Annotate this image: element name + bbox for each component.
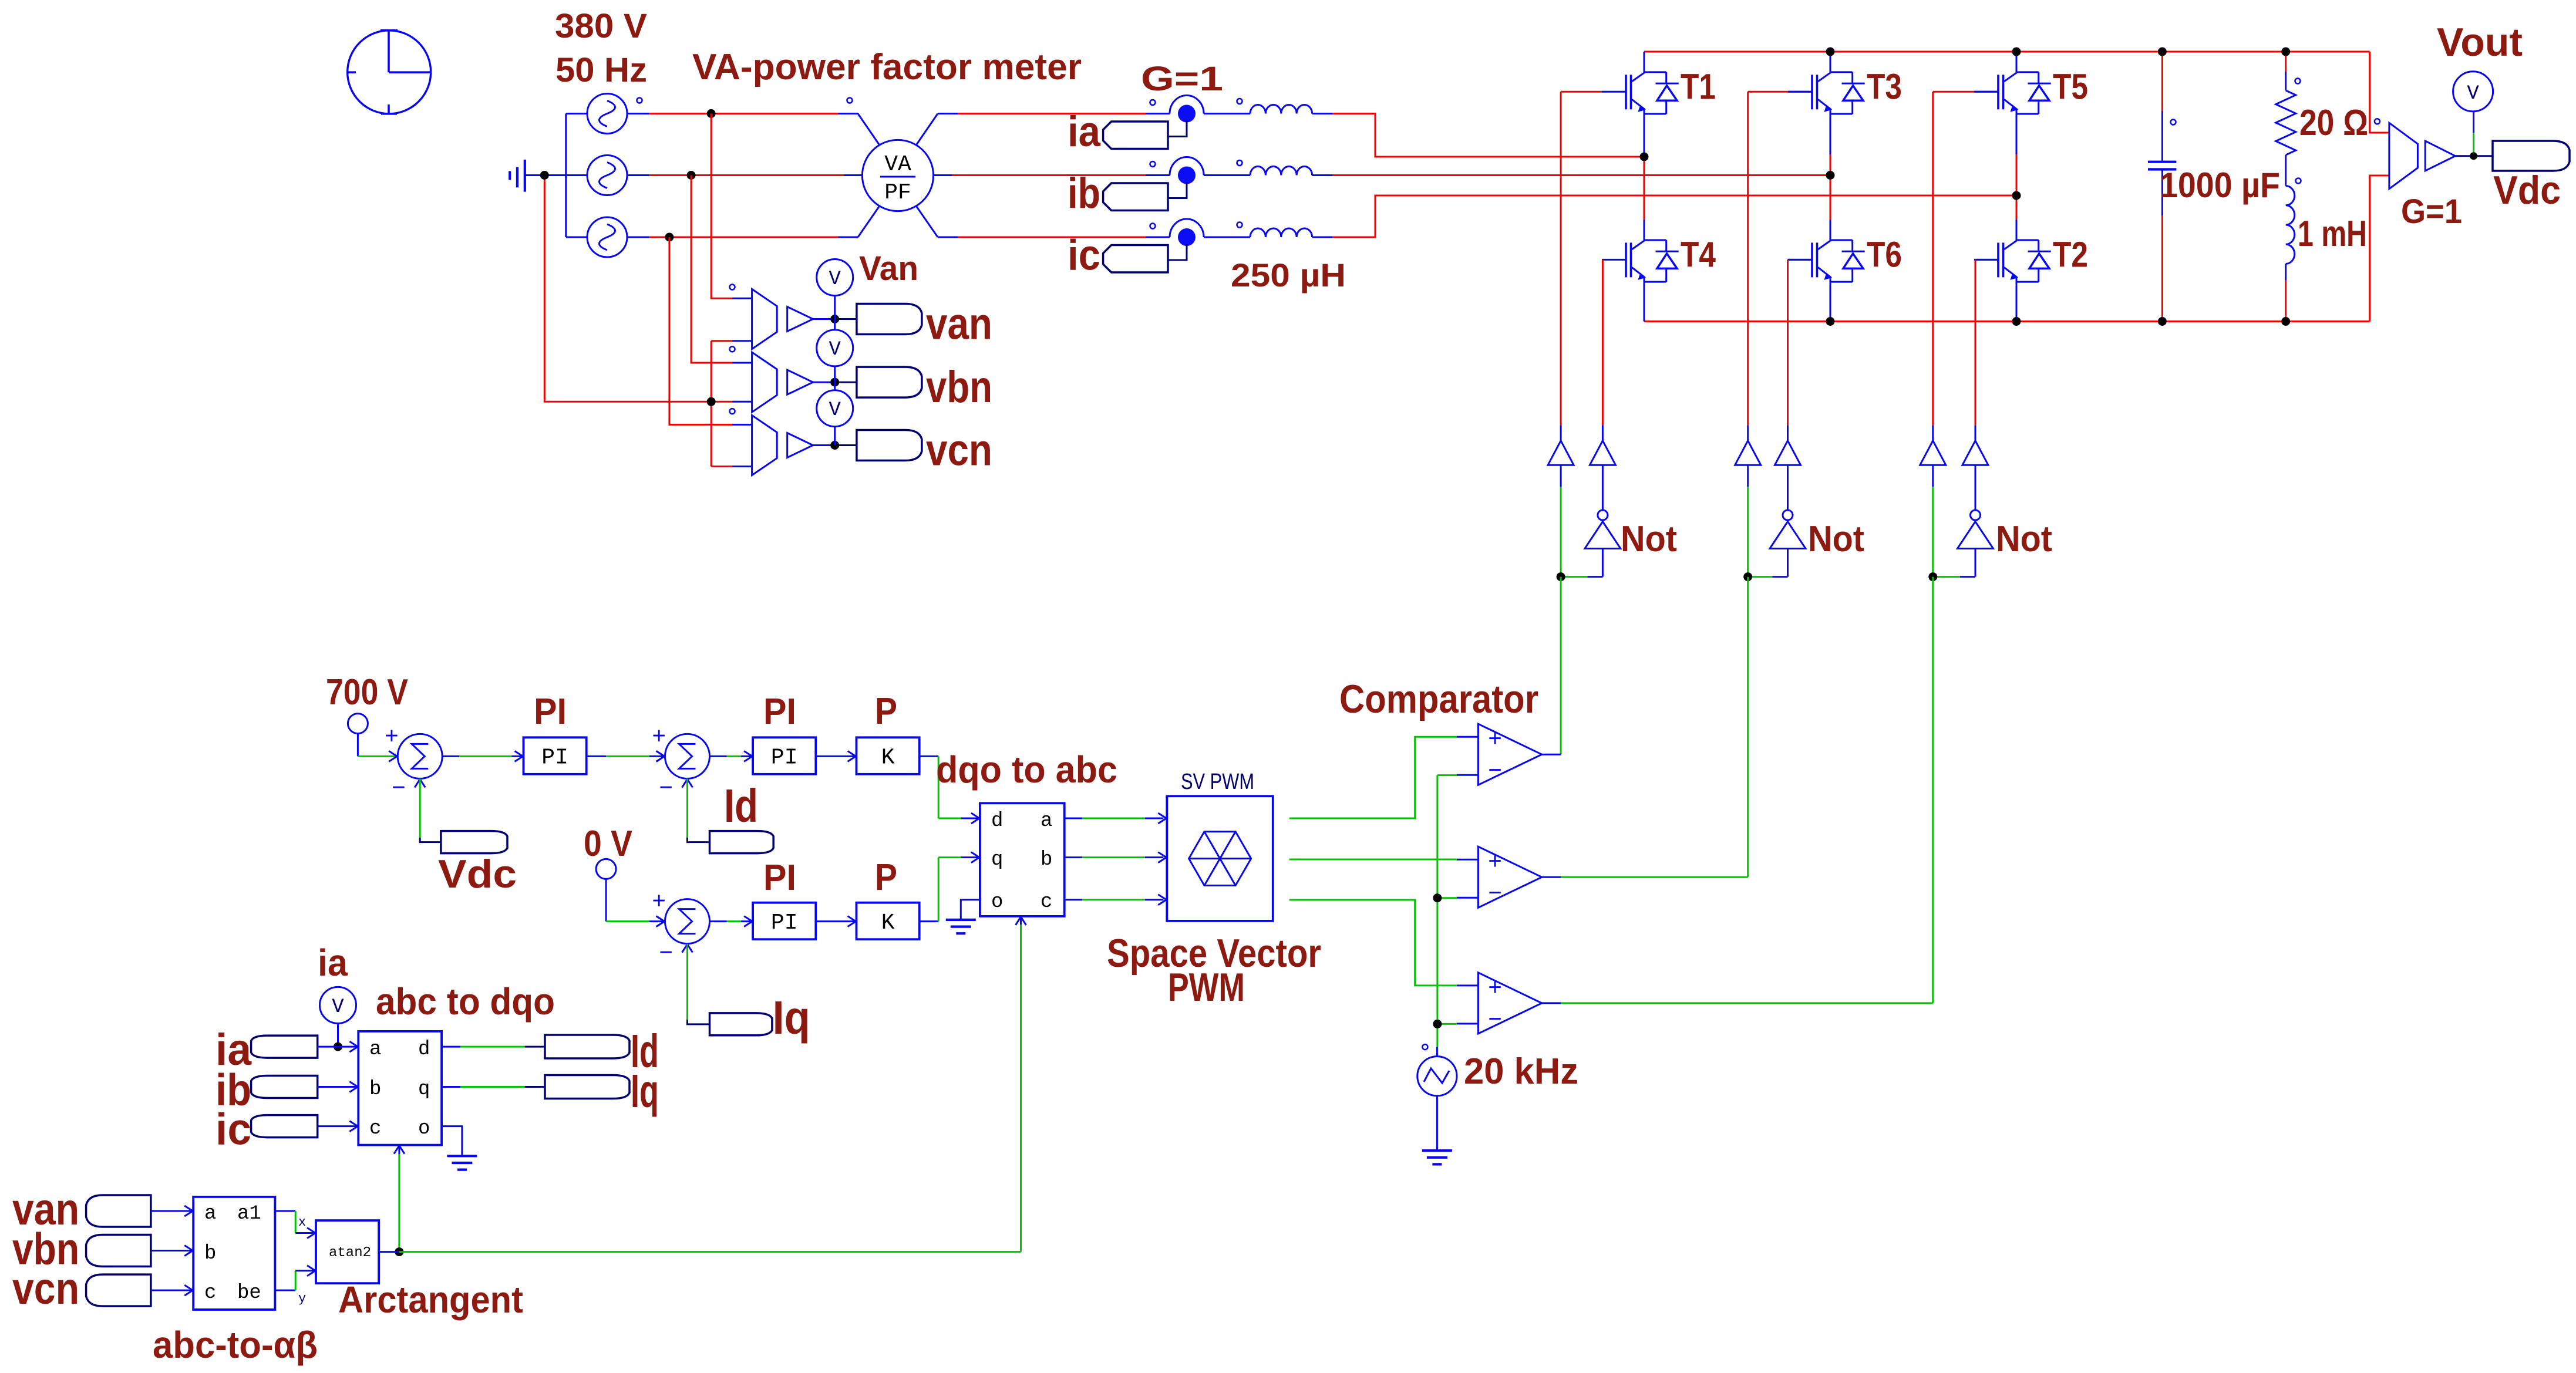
wire phase A into bridge <box>1332 114 1644 157</box>
wire beta out to atan2 y <box>275 1266 316 1290</box>
node cap top <box>2158 48 2167 56</box>
transistor T4 (IGBT with diode) <box>1602 240 1679 282</box>
block Space Vector PWM <box>1167 796 1273 921</box>
svg-text:a: a <box>1040 810 1052 832</box>
wire gate T4 <box>1602 259 1604 425</box>
label plate Vdc <box>2493 141 2570 171</box>
svg-text:be: be <box>237 1282 261 1304</box>
wire T3 emitter to phase B node <box>1830 114 1831 176</box>
svg-text:Vout: Vout <box>2437 20 2523 65</box>
not gate NOT2 <box>1748 510 1806 577</box>
label plate Id out <box>545 1035 629 1058</box>
voltmeter V3 <box>817 382 853 445</box>
svg-text:−: − <box>1488 757 1501 783</box>
dc reference source 0V <box>596 859 665 926</box>
label plate ia <box>1103 122 1168 149</box>
wire phase C node to T2 <box>2016 195 2018 220</box>
svg-text:V: V <box>2467 83 2479 105</box>
voltmeter Van <box>817 259 853 319</box>
block abc-to-dqo transform <box>358 1031 442 1145</box>
marker inductor c <box>1237 222 1242 228</box>
wire phase A node to T4 <box>1644 157 1645 220</box>
svg-text:−: − <box>1488 1006 1501 1032</box>
label plate vbn <box>857 367 922 397</box>
wire comparator3 output up <box>1932 577 1934 1003</box>
label plate Iq feedback <box>710 1013 772 1035</box>
wire DC- to amp input <box>2370 176 2389 322</box>
marker meter <box>847 98 853 103</box>
node res bottom <box>2281 317 2290 326</box>
current sensor ib (G=1) <box>1146 157 1250 198</box>
svg-text:T2: T2 <box>2053 234 2088 274</box>
svg-text:a1: a1 <box>237 1203 261 1225</box>
label plate Iq out <box>545 1075 629 1099</box>
svg-text:d: d <box>991 810 1003 832</box>
svg-text:G=1: G=1 <box>2401 193 2462 231</box>
wire phase A meter to sensor <box>958 113 1146 114</box>
wire S3 to PI3 <box>710 916 753 927</box>
dc reference source 700V <box>348 714 398 757</box>
ac source VS3 (380V 50Hz phase C) <box>566 217 649 257</box>
wire source common bus <box>565 114 567 238</box>
svg-text:c: c <box>1040 891 1052 913</box>
comparator CMP1 <box>1457 724 1561 785</box>
wire phase B meter to sensor <box>952 174 1146 176</box>
marker probe van <box>730 285 735 290</box>
svg-text:T3: T3 <box>1867 66 1902 106</box>
marker sensor ib <box>1150 161 1156 167</box>
svg-text:V: V <box>829 268 841 291</box>
clock element (simulation control) <box>348 31 431 114</box>
svg-text:+: + <box>385 723 398 748</box>
node bottom bus T6 <box>1826 317 1835 326</box>
marker capacitor <box>2171 120 2176 125</box>
inductor Lb 250uH <box>1250 167 1332 176</box>
wire comparator1 output up <box>1560 577 1562 755</box>
wire phase C into bridge <box>1332 195 2016 237</box>
svg-text:+: + <box>1488 726 1501 751</box>
svg-text:250 µH: 250 µH <box>1231 257 1346 294</box>
svg-text:ib: ib <box>1068 170 1100 217</box>
wire q out to Iq plate <box>442 1086 545 1088</box>
marker amp <box>2375 119 2380 124</box>
svg-text:c: c <box>204 1282 216 1304</box>
transistor T1 (IGBT with diode) <box>1602 72 1679 114</box>
wire neutral to probe minus pins <box>711 341 752 467</box>
svg-text:a: a <box>369 1038 381 1061</box>
wire theta into abc-dqo <box>394 1145 405 1252</box>
svg-text:atan2: atan2 <box>329 1245 371 1261</box>
node gate column 2 <box>1743 572 1752 581</box>
svg-text:abc-to-αβ: abc-to-αβ <box>153 1324 318 1366</box>
marker probe vbn <box>730 346 735 352</box>
inductor La 250uH <box>1250 105 1332 114</box>
svg-text:PI: PI <box>771 910 798 936</box>
node phase B midpoint <box>1826 171 1835 180</box>
svg-text:+: + <box>652 723 666 748</box>
svg-text:ic: ic <box>215 1105 251 1155</box>
wire phase C tap to probe3+ <box>669 237 752 424</box>
wire DC+ top bus <box>1644 51 2370 53</box>
label plate ib <box>1103 183 1168 211</box>
svg-text:a: a <box>204 1203 216 1225</box>
comparator CMP2 <box>1457 846 1561 908</box>
wire emitter T2 <box>2016 282 2018 321</box>
node phase C probe tap <box>665 233 674 242</box>
wire DC+ to amp input <box>2370 52 2389 133</box>
wire ib into abc-dqo <box>318 1082 359 1092</box>
svg-text:−: − <box>659 774 673 800</box>
node neutral at probe2- <box>707 397 716 406</box>
marker sensor ic <box>1150 224 1156 229</box>
not gate NOT3 <box>1933 510 1994 577</box>
svg-text:x: x <box>298 1215 306 1230</box>
wire collector T2 <box>2016 220 2018 240</box>
wire gate T1 <box>1561 92 1602 425</box>
svg-text:d: d <box>418 1038 430 1061</box>
svg-text:b: b <box>1040 849 1052 871</box>
marker sensor ia <box>1150 100 1156 105</box>
gating block inverted column 3 <box>1962 425 1988 510</box>
svg-text:vcn: vcn <box>12 1264 79 1314</box>
marker inductor b <box>1237 160 1242 166</box>
wire K2 to dqo-abc q input <box>920 852 980 922</box>
svg-text:Not: Not <box>1808 519 1864 559</box>
node probe vbn output <box>830 378 839 387</box>
wire gate T5 <box>1933 92 1998 425</box>
wire ia into abc-dqo <box>318 1041 359 1052</box>
wire vbn into abc-alphabeta <box>151 1246 193 1256</box>
node cap bottom <box>2158 317 2167 326</box>
svg-text:b: b <box>204 1243 216 1265</box>
wire gate T2 <box>1975 259 1998 425</box>
svg-text:Not: Not <box>1996 519 2052 559</box>
node phase C midpoint <box>2012 191 2021 200</box>
svg-text:o: o <box>991 891 1003 913</box>
capacitor C1 1000uF <box>2148 52 2176 322</box>
meter VA/PF (VA-power factor meter) <box>838 114 958 238</box>
svg-text:y: y <box>298 1291 306 1306</box>
marker source 1 <box>637 98 642 103</box>
svg-text:−: − <box>659 940 673 966</box>
svg-text:Van: Van <box>859 249 918 288</box>
svg-text:−: − <box>392 774 405 800</box>
wire collector T3 <box>1830 52 1831 72</box>
wire PI1 to S2 <box>587 751 665 761</box>
marker inductor a <box>1237 99 1242 104</box>
ground abc-dqo o output <box>442 1126 477 1170</box>
wire triangle carrier net <box>1437 775 1457 1047</box>
wire dqo-abc output <box>1065 852 1167 863</box>
svg-text:0 V: 0 V <box>584 824 632 864</box>
transistor T2 (IGBT with diode) <box>1974 240 2051 282</box>
wire neutral dot to source bus <box>544 174 566 176</box>
svg-text:G=1: G=1 <box>1141 60 1223 98</box>
gating block direct column 2 <box>1735 425 1761 576</box>
wire T1 emitter to phase A node <box>1644 114 1645 157</box>
svg-text:PI: PI <box>763 691 796 732</box>
svg-text:abc to dqo: abc to dqo <box>376 980 555 1023</box>
summing junction S2 <box>656 734 710 787</box>
svg-text:1000 µF: 1000 µF <box>2160 166 2280 205</box>
svg-text:Vdc: Vdc <box>438 852 517 896</box>
svg-text:dqo to abc: dqo to abc <box>936 748 1117 791</box>
inductor Lc 250uH <box>1250 228 1332 237</box>
block abc-to-alphabeta transform <box>193 1197 275 1310</box>
wire S3 minus from Iq plate <box>688 944 710 1024</box>
svg-text:P: P <box>875 856 897 898</box>
wire emitter T6 <box>1830 282 1831 321</box>
node top bus T5 <box>2012 48 2021 56</box>
wire d out to Id plate <box>442 1046 545 1048</box>
transistor T3 (IGBT with diode) <box>1788 72 1865 114</box>
svg-text:700 V: 700 V <box>326 672 408 713</box>
summing junction S3 <box>656 899 710 953</box>
svg-text:Arctangent: Arctangent <box>338 1278 523 1321</box>
wire collector T4 <box>1644 220 1645 240</box>
svg-text:20 Ω: 20 Ω <box>2299 103 2368 143</box>
node neutral junction <box>540 171 549 180</box>
svg-text:+: + <box>652 888 666 914</box>
wire alpha out to atan2 x <box>275 1211 316 1239</box>
svg-text:PI: PI <box>763 858 796 898</box>
transistor T5 (IGBT with diode) <box>1974 72 2051 114</box>
ac source VS2 (380V 50Hz phase B) <box>566 156 649 195</box>
voltmeter V2 <box>817 319 853 383</box>
ground carrier source <box>1422 1149 1452 1152</box>
wire dqo-abc output <box>1065 813 1167 824</box>
block arctangent atan2 <box>298 1215 399 1306</box>
svg-text:PI: PI <box>541 745 568 771</box>
wire S1 minus from Vdc plate <box>420 778 441 842</box>
block K2 (proportional gain q) <box>857 903 920 940</box>
wire T5 emitter to phase C node <box>2016 114 2018 195</box>
wire emitter T4 <box>1644 282 1645 321</box>
marker carrier source <box>1422 1044 1427 1050</box>
svg-text:V: V <box>332 996 344 1018</box>
node ia probe tap <box>334 1043 342 1051</box>
label plate van <box>857 304 922 335</box>
svg-text:Vdc: Vdc <box>2493 168 2561 212</box>
summing junction S1 <box>389 734 442 787</box>
svg-text:−: − <box>1488 880 1501 906</box>
label plate van input <box>86 1195 151 1227</box>
wire comparator2 output up <box>1747 577 1749 878</box>
block PI3 (q-axis regulator) <box>753 903 816 940</box>
wire collector T5 <box>2016 52 2018 72</box>
label plate Vdc feedback <box>441 831 507 854</box>
svg-text:T5: T5 <box>2053 66 2088 106</box>
wire ic into abc-dqo <box>318 1121 359 1132</box>
svg-text:SV PWM: SV PWM <box>1181 770 1254 794</box>
svg-text:b: b <box>369 1078 381 1101</box>
node top bus T3 <box>1826 48 1835 56</box>
svg-text:V: V <box>829 339 841 361</box>
wire phase B node to T6 <box>1830 176 1831 220</box>
block dqo-to-abc transform <box>980 803 1065 916</box>
svg-text:380 V: 380 V <box>555 7 647 45</box>
wire S2 minus from Id plate <box>688 778 710 842</box>
inductor L4 1mH <box>2286 186 2295 322</box>
voltage probe vcn <box>752 416 857 475</box>
label plate ic input <box>251 1115 318 1138</box>
label plate vbn input <box>86 1235 151 1267</box>
wire vcn into abc-alphabeta <box>151 1285 193 1296</box>
wire PI3 to K2 <box>816 916 856 927</box>
svg-text:Id: Id <box>724 780 758 832</box>
comparator CMP3 <box>1457 973 1561 1034</box>
wire gate T6 <box>1788 259 1813 425</box>
svg-text:T6: T6 <box>1867 234 1902 274</box>
svg-text:q: q <box>418 1078 430 1101</box>
svg-text:+: + <box>1488 848 1501 874</box>
ac source 20kHz triangle carrier <box>1417 1047 1457 1151</box>
svg-text:c: c <box>369 1118 381 1140</box>
gating block inverted column 2 <box>1775 425 1801 510</box>
svg-text:+: + <box>1488 974 1501 1000</box>
voltage sensor G=1 (Vdc) <box>2389 123 2493 188</box>
gating block direct column 3 <box>1920 425 1946 576</box>
svg-text:50 Hz: 50 Hz <box>555 51 647 89</box>
wire collector T6 <box>1830 220 1831 240</box>
svg-text:q: q <box>991 849 1003 871</box>
wire S1 to PI1 <box>442 751 523 761</box>
svg-text:T4: T4 <box>1681 234 1716 274</box>
block K1 (proportional gain d) <box>857 737 920 774</box>
gating block inverted column 1 <box>1590 425 1615 510</box>
label plate ia input <box>251 1035 318 1058</box>
ground (source neutral) <box>510 160 544 192</box>
wire svpwm c to cmp3+ <box>1289 900 1457 986</box>
svg-text:ia: ia <box>318 942 348 984</box>
ac source VS1 (380V 50Hz phase A) <box>566 94 649 134</box>
svg-text:VA: VA <box>884 152 911 177</box>
ground dqo-abc o input <box>946 900 980 933</box>
svg-text:K: K <box>881 910 895 936</box>
label plate ib input <box>251 1076 318 1098</box>
wire theta into dqo-abc <box>1016 916 1026 1252</box>
wire phase B tap to probe2+ <box>691 176 752 363</box>
svg-text:T1: T1 <box>1681 66 1716 106</box>
svg-text:ia: ia <box>1068 108 1101 156</box>
node carrier to cmp2- <box>1433 893 1442 902</box>
not gate NOT1 <box>1561 510 1621 577</box>
wire svpwm b to cmp2+ <box>1289 859 1457 861</box>
node phase A midpoint <box>1640 153 1649 161</box>
svg-text:Comparator: Comparator <box>1339 677 1538 721</box>
node phase A probe tap <box>707 109 716 118</box>
node bottom bus T2 <box>2012 317 2021 326</box>
svg-text:vcn: vcn <box>926 426 992 475</box>
svg-text:o: o <box>418 1118 430 1140</box>
svg-text:20 kHz: 20 kHz <box>1464 1051 1578 1092</box>
label plate vcn <box>857 430 922 461</box>
current sensor ia (G=1) <box>1146 96 1250 137</box>
wire phase A source to meter <box>649 113 838 114</box>
svg-text:K: K <box>881 745 895 771</box>
svg-text:PI: PI <box>771 745 798 771</box>
wire phase C source to meter <box>649 237 838 238</box>
wire theta bus <box>399 1251 1021 1253</box>
voltage probe vbn <box>752 352 857 412</box>
svg-text:P: P <box>875 690 897 732</box>
svg-text:PWM: PWM <box>1168 965 1245 1010</box>
svg-text:1 mH: 1 mH <box>2298 214 2367 254</box>
wire phase B into bridge <box>1332 174 1830 176</box>
wire comparator2 output <box>1561 876 1747 878</box>
svg-text:ic: ic <box>1068 232 1100 279</box>
label plate vcn input <box>86 1274 151 1306</box>
wire svpwm a to cmp1+ <box>1289 737 1457 818</box>
block PI2 (d-axis regulator) <box>753 737 816 774</box>
resistor R1 20ohm <box>2276 52 2296 186</box>
svg-text:PF: PF <box>884 180 911 205</box>
voltmeter ia probe <box>320 987 356 1047</box>
wire PI2 to K1 <box>816 751 856 761</box>
node probe van output <box>830 315 839 323</box>
svg-text:Iq: Iq <box>773 991 810 1044</box>
node gate column 1 <box>1557 572 1565 581</box>
current sensor ic (G=1) <box>1146 219 1250 260</box>
wire phase C meter to sensor <box>958 237 1146 238</box>
wire DC- bottom bus <box>1644 321 2370 322</box>
svg-text:Iq: Iq <box>631 1065 659 1117</box>
svg-text:V: V <box>829 399 841 421</box>
block PI1 (voltage regulator) <box>524 737 587 774</box>
svg-text:van: van <box>926 299 992 349</box>
wire phase A tap to probe1+ <box>711 114 752 299</box>
node probe vcn output <box>830 441 839 450</box>
transistor T6 (IGBT with diode) <box>1788 240 1865 282</box>
node res top <box>2281 48 2290 56</box>
node gate column 3 <box>1928 572 1937 581</box>
wire gate T3 <box>1748 92 1812 425</box>
svg-text:Not: Not <box>1621 519 1677 559</box>
node carrier to cmp3- <box>1433 1020 1442 1028</box>
svg-text:VA-power factor meter: VA-power factor meter <box>692 47 1082 87</box>
node amp output <box>2470 152 2477 160</box>
wire dqo-abc output <box>1065 895 1167 905</box>
wire neutral down-run to probes <box>544 176 711 402</box>
wire K1 to dqo-abc d input <box>920 756 980 824</box>
svg-text:vbn: vbn <box>926 362 992 412</box>
wire comparator3 output <box>1561 1002 1932 1004</box>
marker resistor <box>2295 79 2301 84</box>
gating block direct column 1 <box>1548 425 1574 576</box>
svg-text:PI: PI <box>534 691 567 732</box>
wire S2 to PI2 <box>710 751 753 761</box>
marker probe vcn <box>730 409 735 414</box>
label plate Id feedback <box>710 831 774 854</box>
marker inductor 1mH <box>2296 178 2301 184</box>
wire van into abc-alphabeta <box>151 1206 193 1216</box>
voltage probe van <box>752 289 857 349</box>
node theta junction <box>395 1247 403 1256</box>
label plate ic <box>1103 245 1168 273</box>
wire phase B source to meter <box>649 174 844 176</box>
wire collector T1 <box>1644 52 1645 72</box>
node phase B probe tap <box>687 171 696 180</box>
voltmeter Vout <box>2453 72 2493 156</box>
